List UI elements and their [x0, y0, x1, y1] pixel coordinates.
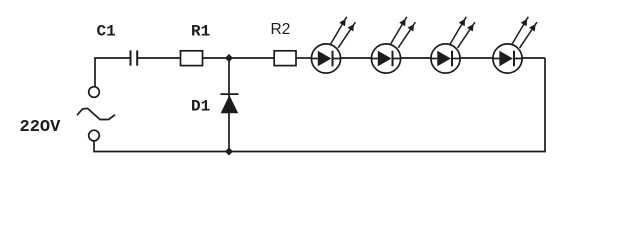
- LED 2: [371, 17, 415, 73]
- terminal circle top: [89, 87, 100, 98]
- wire R2 to LED1: [296, 57, 312, 59]
- wire top-left vertical and horizontal to C1: [95, 58, 130, 87]
- wire R1 to node A: [203, 57, 230, 59]
- junction node A: [225, 54, 233, 62]
- diode D1: [220, 94, 238, 113]
- svg-text:R2: R2: [271, 21, 291, 38]
- wire diode branch vertical: [228, 58, 230, 152]
- LED 3: [431, 17, 475, 73]
- LED 4: [493, 17, 537, 73]
- wire C1 to R1: [138, 57, 180, 59]
- svg-text:C1: C1: [97, 22, 116, 40]
- wire bottom rail and right side up: [229, 58, 545, 152]
- wire node A to R2: [229, 57, 274, 59]
- LED 1: [311, 17, 355, 73]
- wire LED4 to right corner: [522, 57, 545, 59]
- AC tilde: [77, 108, 115, 119]
- junction node B: [225, 148, 233, 156]
- wire LED2-LED3: [401, 57, 432, 59]
- svg-text:22OV: 22OV: [20, 118, 62, 137]
- resistor R2: [274, 51, 296, 66]
- wire LED1-LED2: [341, 57, 372, 59]
- terminal circle bottom: [89, 130, 100, 141]
- svg-text:D1: D1: [191, 97, 210, 115]
- wire bottom-left corner: [94, 141, 229, 152]
- capacitor C1: [131, 50, 138, 65]
- wire LED3-LED4: [460, 57, 493, 59]
- resistor R1: [181, 51, 203, 66]
- svg-text:R1: R1: [191, 22, 210, 40]
